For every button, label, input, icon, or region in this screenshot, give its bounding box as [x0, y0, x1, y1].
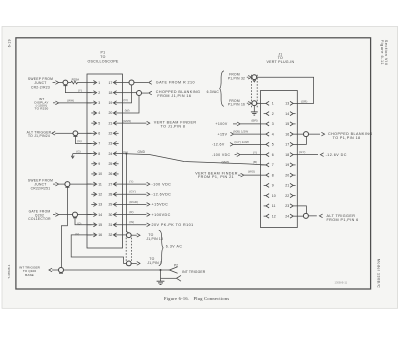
svg-text:6.3V AC: 6.3V AC	[166, 245, 183, 249]
P1 pin 3	[87, 101, 100, 105]
svg-text:(W): (W)	[129, 220, 134, 224]
wire jack6 to P1 pin 7	[75, 136, 91, 144]
label CHOPPED BLANKING TO P1 PIN 18	[328, 132, 373, 140]
svg-text:-12.6V DC: -12.6V DC	[326, 153, 347, 157]
svg-text:3: 3	[272, 122, 274, 126]
label VERT BEAM FINDER TO J1 PIN 8	[154, 121, 197, 129]
J1 pin 1	[261, 101, 274, 105]
wire jack to chopped out label	[309, 133, 321, 135]
page number 6-19	[7, 39, 11, 47]
svg-text:14: 14	[285, 112, 289, 116]
label GND at pin 24	[138, 150, 146, 154]
shielded pair top dashed	[251, 75, 257, 107]
wire jack17 down to pin 19	[122, 85, 131, 103]
svg-text:22: 22	[108, 132, 112, 136]
wire J1 pin23 down to jack	[297, 206, 306, 214]
svg-text:(GY) 1/2W: (GY) 1/2W	[234, 140, 249, 144]
arrow -12.6V	[230, 143, 233, 147]
jack J heater pair top	[126, 233, 131, 238]
svg-text:10: 10	[98, 172, 102, 176]
label FROM P1 PIN 16	[228, 99, 245, 107]
label 6.3VAC top	[207, 90, 220, 94]
connector P1 label	[87, 50, 118, 63]
wire label (RGD) pin 29	[129, 200, 138, 204]
P1 pin 2	[87, 91, 100, 95]
wire +15V to J1 pin 4	[234, 133, 261, 135]
P1 pin 28	[108, 192, 122, 196]
svg-text:VERT PLUG-IN: VERT PLUG-IN	[266, 60, 294, 64]
svg-text:-12.6VDC: -12.6VDC	[152, 193, 172, 197]
svg-text:3: 3	[98, 101, 100, 105]
svg-text:J1,PIN 13: J1,PIN 13	[146, 237, 163, 241]
svg-text:7: 7	[98, 142, 100, 146]
svg-text:19: 19	[108, 101, 112, 105]
ground symbol at P2	[157, 281, 165, 284]
P1 pin 20	[108, 111, 122, 115]
J1 pin 10	[264, 194, 276, 198]
svg-text:130B-B-11: 130B-B-11	[335, 281, 348, 285]
J1 pin 21	[285, 183, 295, 187]
svg-text:(GY): (GY)	[299, 150, 305, 154]
svg-text:J1,PIN 1: J1,PIN 1	[147, 261, 162, 265]
arrow gate from R210	[149, 81, 152, 85]
svg-text:FROM P1,PIN 6: FROM P1,PIN 6	[327, 218, 359, 222]
svg-text:TO P1,PIN 18: TO P1,PIN 18	[333, 136, 361, 140]
svg-text:6: 6	[98, 132, 100, 136]
svg-text:TO J1,PIN 8: TO J1,PIN 8	[161, 124, 186, 128]
P1 pin 18	[108, 91, 122, 95]
J1 pin 14	[285, 112, 295, 116]
svg-text:25: 25	[108, 162, 112, 166]
svg-text:11: 11	[98, 182, 102, 186]
svg-text:(G): (G)	[77, 139, 81, 143]
J1 pin 23	[285, 204, 297, 208]
svg-text:T-46528-1: T-46528-1	[7, 264, 11, 279]
J1 pin 4	[261, 132, 274, 136]
svg-text:(WH): (WH)	[67, 99, 74, 103]
J1 pin 17	[285, 142, 297, 146]
resistor R25A	[68, 77, 88, 84]
P1 pin 19	[108, 101, 122, 105]
wire -12.6V to J1 pin 5	[233, 143, 260, 145]
ground stem top pair	[253, 106, 255, 112]
header Figure 6-11	[380, 40, 384, 65]
wire P1 pin 16 heater run	[71, 235, 126, 264]
wire P1 pin 32 to jack	[122, 234, 126, 236]
J1 pin 5	[261, 142, 274, 146]
svg-text:(Y): (Y)	[129, 180, 133, 184]
P1 pin 25	[108, 162, 118, 166]
wire P1 pin17 to jack	[122, 82, 129, 84]
jack J alt trigger	[303, 213, 308, 218]
label INT TRIGGER at P2	[182, 270, 206, 274]
svg-text:2: 2	[98, 91, 100, 95]
wire alt trigger to jack	[60, 132, 73, 134]
svg-text:INT TRIGGER: INT TRIGGER	[182, 270, 206, 274]
arrow supply pin 29	[147, 203, 150, 207]
J1 pin 12	[264, 214, 276, 218]
wire P1 pin 28 out	[122, 193, 146, 195]
svg-text:GATE FROM R 210: GATE FROM R 210	[156, 81, 195, 85]
J1 pin 13	[285, 101, 297, 105]
P1 pin 14	[87, 213, 102, 217]
arrow vert beam finder out	[147, 121, 150, 125]
wire jack to gate label	[134, 82, 148, 84]
wire jack11 to P1 pin 11	[70, 183, 92, 185]
svg-text:FROM J1,PIN 16: FROM J1,PIN 16	[157, 94, 191, 98]
jack J at P1 pin 11	[65, 182, 70, 188]
wire label (WG) J1 pin 8	[248, 169, 255, 173]
wire P1 pin 31 out	[122, 224, 146, 226]
connector J1 body	[261, 91, 298, 228]
wire jack14 to P1 pin 14	[78, 214, 92, 216]
J1 pin 8	[261, 173, 274, 177]
J1 pin 22	[285, 194, 295, 198]
wire jack to P1 pin 2	[65, 85, 91, 93]
svg-text:(O): (O)	[77, 221, 81, 225]
label GATE FROM Q202 COLLECTOR	[28, 210, 51, 222]
svg-text:12: 12	[272, 214, 276, 218]
svg-text:+100VDC: +100VDC	[152, 213, 171, 217]
J1 pin 15	[285, 122, 295, 126]
J1 pin 18	[285, 153, 297, 157]
wire label (GY) pin 28	[129, 190, 135, 194]
J1 pin 11	[264, 204, 276, 208]
label INT DISPLAY -100V TO R250	[34, 97, 48, 111]
svg-text:5: 5	[272, 143, 274, 147]
wire label (BR) J1 pin 3	[251, 118, 257, 122]
label SWEEP FROM JUNCT CR2-2/R23	[28, 77, 53, 90]
wire label (V) pin 16	[75, 232, 79, 236]
jack J at P1 pin 14	[73, 212, 78, 218]
svg-text:22: 22	[285, 194, 289, 198]
label +100V	[215, 122, 227, 126]
svg-text:1: 1	[272, 102, 274, 106]
wire label (Y) J1 pin 6	[253, 150, 257, 154]
arrow supply pin 30	[147, 213, 150, 217]
label TO J1 PIN 1	[147, 257, 162, 265]
svg-text:TO: TO	[100, 55, 105, 59]
label 6.3V AC bottom	[166, 245, 183, 249]
P1 pin 27	[108, 182, 122, 186]
wire label (905) 1/2W J1 pin 4	[233, 130, 248, 134]
J1 pin 2	[264, 112, 274, 116]
svg-text:BASE: BASE	[25, 273, 34, 277]
label 20V PK-PK TO R101	[152, 223, 194, 227]
arrow int display	[53, 101, 59, 105]
svg-text:(905) 1/2W: (905) 1/2W	[233, 130, 248, 134]
J1 pin 24	[285, 214, 297, 218]
svg-text:-100 VDC: -100 VDC	[152, 182, 172, 186]
svg-text:OSCILLOSCOPE: OSCILLOSCOPE	[87, 59, 118, 63]
svg-text:(B): (B)	[253, 160, 257, 164]
wire label (Y) pin 27	[129, 180, 133, 184]
arrow from p1 pin16	[247, 101, 252, 105]
label TO J1 PIN 13	[146, 233, 163, 241]
arrow supply pin 31	[147, 223, 150, 227]
arrow into sweep wire	[53, 81, 59, 85]
label +15V	[218, 132, 228, 136]
svg-text:GND: GND	[138, 150, 146, 154]
svg-text:(Y): (Y)	[78, 88, 82, 92]
arrow supply pin 27	[147, 182, 150, 186]
arrow -100VDC	[235, 153, 240, 157]
svg-text:(BR): (BR)	[251, 118, 257, 122]
svg-text:16: 16	[285, 132, 289, 136]
svg-text:TO J1,PIN24: TO J1,PIN24	[28, 134, 50, 138]
P1 pin 21	[108, 121, 122, 125]
jack J at P1 pin 1	[63, 80, 68, 86]
ground symbol top pair	[251, 112, 258, 115]
P1 pin 22	[108, 131, 118, 135]
wire label (GY) J1 pin 18	[299, 150, 305, 154]
arrow to J1 pin 13	[131, 233, 140, 237]
svg-text:5: 5	[98, 121, 100, 125]
svg-text:17: 17	[108, 81, 112, 85]
wire jack18 down to pin 20	[122, 96, 139, 113]
wire J1 pin13 loop	[257, 77, 314, 103]
svg-text:11: 11	[272, 204, 276, 208]
svg-text:17: 17	[285, 143, 289, 147]
arrow from p1 pin32	[247, 75, 252, 79]
svg-text:23: 23	[108, 142, 112, 146]
svg-text:(G): (G)	[76, 150, 80, 154]
wire J1 pin17 up to jack	[297, 137, 306, 145]
svg-text:16: 16	[98, 233, 102, 237]
svg-text:(W): (W)	[125, 109, 130, 113]
svg-text:CR2-2/R23: CR2-2/R23	[31, 85, 50, 89]
svg-text:R25A: R25A	[72, 77, 80, 81]
arrow alt trigger in	[319, 214, 322, 218]
J1 pin 6	[261, 153, 274, 157]
svg-text:-100 VDC: -100 VDC	[212, 153, 231, 157]
svg-text:18: 18	[285, 153, 289, 157]
svg-text:2: 2	[272, 112, 274, 116]
jack J int trigger	[59, 268, 64, 274]
svg-text:14: 14	[98, 213, 102, 217]
svg-text:+15VDC: +15VDC	[152, 203, 169, 207]
plug P2 prong 1	[169, 267, 177, 273]
brace 6.3VAC bottom	[159, 230, 163, 265]
wire P1 pin 30 out	[122, 214, 146, 216]
label P2	[174, 264, 178, 268]
arrow to J1 pin 1	[131, 262, 140, 266]
svg-text:13: 13	[98, 203, 102, 207]
P1 pin 11	[87, 182, 102, 186]
wire label (Y) pin 2	[78, 88, 82, 92]
jack J chopped blanking out	[304, 132, 309, 137]
svg-text:6: 6	[272, 153, 274, 157]
wire jack to alt trigger label	[308, 215, 316, 217]
label -100 VDC	[212, 153, 231, 157]
svg-text:10: 10	[272, 194, 276, 198]
wire sweep to jack	[59, 82, 63, 84]
svg-text:9: 9	[272, 184, 274, 188]
svg-text:19: 19	[285, 163, 289, 167]
wire +100V to J1 pin 3	[240, 123, 260, 125]
svg-text:(O): (O)	[123, 98, 127, 102]
label -12.6VDC	[152, 193, 172, 197]
wire J1 pin24 to jack	[297, 215, 303, 217]
svg-text:TO R250: TO R250	[35, 107, 49, 111]
arrow chopped blanking	[149, 91, 152, 95]
svg-text:GND: GND	[222, 160, 230, 164]
P1 pin 26	[108, 172, 118, 176]
wire label (GNS) pin 21	[123, 119, 131, 123]
svg-text:9: 9	[98, 162, 100, 166]
arrow supply pin 28	[147, 192, 150, 196]
arrow +100V	[233, 122, 240, 126]
P1 pin 15	[87, 223, 102, 227]
wire jack to J1 pin 1	[257, 102, 261, 104]
label -12.6V DC	[326, 153, 347, 157]
svg-text:27: 27	[108, 182, 112, 186]
jack J heater pair bottom	[126, 261, 131, 266]
label ALT TRIGGER TO J1 PIN24	[27, 130, 52, 138]
J1 pin 20	[285, 173, 295, 177]
arrow int trigger	[49, 268, 59, 272]
arrow alt trigger	[52, 132, 60, 136]
connector P1 body	[87, 74, 123, 248]
arrow chopped blanking out	[321, 132, 324, 136]
wire label (GR) J1 pin 13	[301, 100, 308, 104]
J1 pin 3	[261, 122, 274, 126]
svg-text:(GN5): (GN5)	[123, 119, 131, 123]
label FROM P1 PIN 32	[228, 73, 245, 81]
label ALT TRIGGER FROM P1 PIN 6	[327, 214, 359, 222]
arrow sweep junct	[53, 182, 59, 186]
jack J gate from R210	[129, 80, 134, 85]
svg-text:6-19: 6-19	[7, 39, 11, 47]
wire jack14 to P1 pin 15	[75, 217, 92, 225]
wire shield drop pin24 to pair	[126, 154, 128, 233]
footer Model 130B	[376, 259, 380, 288]
svg-text:P1,PIN 32: P1,PIN 32	[228, 76, 245, 80]
wire sweep junct to jack	[59, 183, 65, 185]
photo number T-46528-1	[7, 264, 11, 279]
wire ground branch	[161, 270, 177, 281]
caption Figure 6-16 Plug Connections	[164, 296, 229, 301]
plug P2 prong 2 ground	[177, 275, 182, 281]
wire J1 pin16 to jack	[297, 133, 304, 135]
P1 pin 8	[87, 152, 100, 156]
header Section VIII	[384, 40, 388, 66]
P1 pin 31	[108, 223, 122, 227]
wire J1 pin 18 out	[297, 154, 318, 156]
label VERT BEAM FINDER FROM P1 PIN 21	[195, 171, 238, 179]
wire P1 pin 27 out	[122, 183, 146, 185]
wire int trigger line	[64, 269, 170, 271]
svg-text:15: 15	[98, 223, 102, 227]
svg-text:13: 13	[285, 102, 289, 106]
P1 pin 24	[108, 152, 122, 156]
svg-text:8: 8	[98, 152, 100, 156]
P1 pin 16	[87, 233, 102, 237]
P1 pin 17	[108, 81, 122, 85]
svg-text:P1,PIN 16: P1,PIN 16	[228, 103, 245, 107]
wire label (O) pin 15	[77, 221, 81, 225]
svg-text:Model 130B/C: Model 130B/C	[376, 259, 380, 288]
wire P1 pin18 to jack	[122, 92, 136, 94]
svg-text:12: 12	[98, 193, 102, 197]
svg-text:Figure 6-11: Figure 6-11	[380, 40, 384, 65]
svg-text:COLLECTOR: COLLECTOR	[28, 217, 51, 221]
wire vert beam finder to J1 pin 8	[244, 174, 261, 176]
connector J1 label	[266, 52, 294, 64]
arrow +15V	[230, 132, 233, 136]
wire label (GY) 1/2W J1 pin 5	[234, 140, 249, 144]
wire -100VDC to J1 pin 6	[240, 154, 261, 156]
svg-text:+15V: +15V	[218, 132, 228, 136]
junction dot pin 24	[125, 153, 127, 155]
J1 pin 7	[261, 163, 274, 167]
P1 pin 13	[91, 202, 102, 206]
jack J at P1 pin 6	[73, 131, 78, 136]
svg-text:7: 7	[272, 163, 274, 167]
arrow stem under upper jack	[253, 80, 256, 82]
P1 pin 32	[108, 233, 122, 237]
wire jack11 down to int trigger line	[61, 187, 67, 268]
svg-text:4: 4	[98, 111, 100, 115]
wire label (WH) pin 3	[67, 99, 74, 103]
label +100VDC	[152, 213, 171, 217]
P1 pin 1	[87, 81, 100, 85]
svg-text:(RGD): (RGD)	[129, 200, 138, 204]
arrow gate q202	[53, 213, 59, 217]
svg-text:6.3VAC: 6.3VAC	[207, 90, 220, 94]
label -12.6V	[212, 143, 225, 147]
jack J top pair lower	[252, 101, 257, 106]
jack J top pair upper	[252, 75, 257, 80]
arrow vert beam finder in	[238, 173, 244, 177]
svg-text:29: 29	[108, 203, 112, 207]
svg-text:+100V: +100V	[215, 122, 227, 126]
svg-text:P1: P1	[101, 50, 106, 54]
svg-text:Figure 6-16. Plug Connection: Figure 6-16. Plug Connections	[164, 296, 229, 301]
P1 pin 12	[91, 192, 102, 196]
wire label (G) pin 24	[123, 150, 127, 154]
svg-text:(Y): (Y)	[253, 150, 257, 154]
svg-text:(WG): (WG)	[248, 169, 255, 173]
svg-text:20: 20	[108, 111, 112, 115]
wire gate to jack	[59, 214, 73, 216]
svg-text:26: 26	[108, 172, 112, 176]
wire jack6 to P1 pin 6	[78, 132, 92, 134]
svg-text:20: 20	[285, 173, 289, 177]
svg-text:20V PK-PK TO R101: 20V PK-PK TO R101	[152, 223, 194, 227]
jack J chopped blanking	[137, 91, 142, 96]
P1 pin 23	[108, 141, 118, 145]
P1 pin 5	[91, 121, 100, 125]
J1 pin 16	[285, 132, 297, 136]
svg-text:21: 21	[108, 121, 112, 125]
svg-text:21: 21	[285, 184, 289, 188]
svg-text:30: 30	[108, 213, 112, 217]
svg-text:31: 31	[108, 223, 112, 227]
wire label (W) pin 31	[129, 220, 134, 224]
drawing number 130B-B-11	[335, 281, 348, 285]
wire label (R) pin 30	[129, 210, 133, 214]
label GATE FROM R 210	[156, 81, 195, 85]
wire label (G) pin 7	[77, 139, 81, 143]
J1 pin 9	[264, 183, 274, 187]
P1 pin 4	[91, 111, 100, 115]
P1 pin 7	[87, 141, 100, 145]
label CHOPPED BLANKING FROM J1 PIN 16	[156, 90, 201, 98]
svg-text:8: 8	[272, 173, 274, 177]
arrow -12.6VDC at J1	[320, 153, 323, 157]
svg-text:4: 4	[272, 132, 274, 136]
